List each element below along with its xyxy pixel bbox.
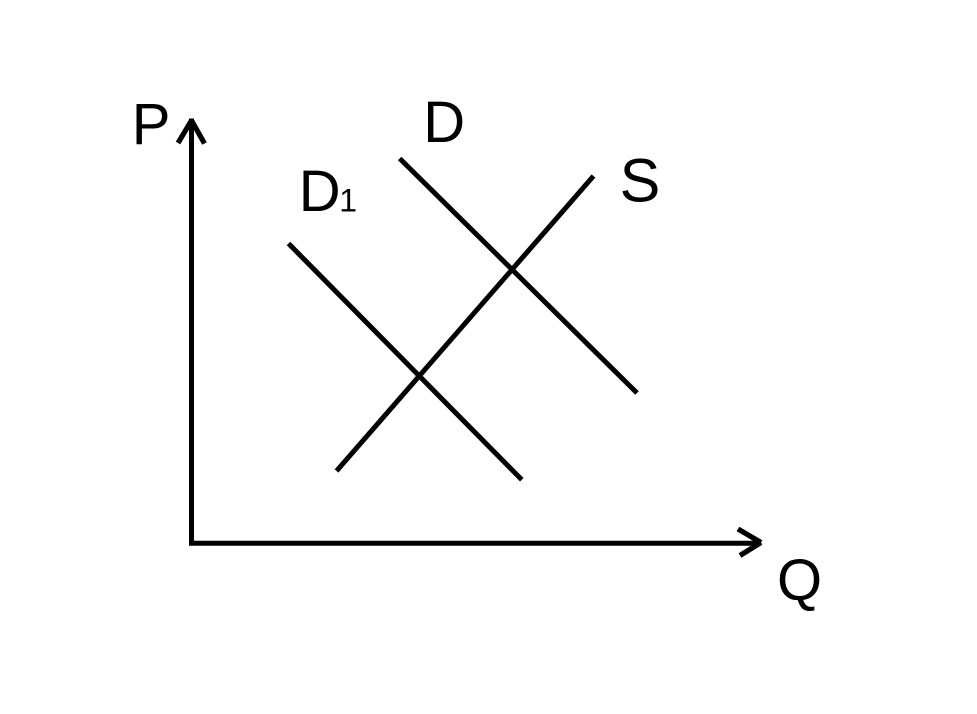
svg-text:D: D bbox=[423, 90, 465, 155]
svg-text:1: 1 bbox=[339, 183, 357, 219]
axis label Q bbox=[777, 548, 822, 613]
curve label S bbox=[620, 147, 661, 215]
vertical axis arrowhead bbox=[178, 121, 205, 144]
shifted demand curve D1 bbox=[289, 244, 522, 480]
svg-text:Q: Q bbox=[777, 548, 822, 613]
axis label P bbox=[132, 92, 171, 157]
svg-text:P: P bbox=[132, 92, 171, 157]
horizontal axis (quantity) bbox=[189, 541, 760, 546]
vertical axis (price) bbox=[189, 119, 194, 544]
curve label D bbox=[423, 90, 465, 155]
svg-text:S: S bbox=[620, 147, 661, 215]
svg-text:D: D bbox=[299, 159, 341, 224]
supply curve S bbox=[337, 176, 594, 471]
horizontal axis arrowhead bbox=[738, 529, 761, 556]
demand curve D bbox=[400, 159, 637, 394]
curve label D1 bbox=[299, 159, 357, 224]
